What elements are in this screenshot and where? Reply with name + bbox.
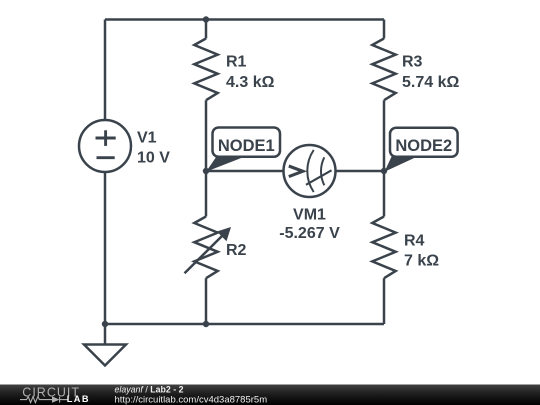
- svg-text:V1: V1: [137, 129, 157, 146]
- svg-text:5.74 kΩ: 5.74 kΩ: [402, 74, 459, 91]
- svg-text:4.3 kΩ: 4.3 kΩ: [226, 74, 275, 91]
- svg-text:http://circuitlab.com/cv4d3a87: http://circuitlab.com/cv4d3a8785r5m: [115, 395, 268, 405]
- svg-text:VM1: VM1: [293, 207, 326, 224]
- svg-text:R2: R2: [226, 242, 247, 259]
- svg-text:R1: R1: [226, 54, 247, 71]
- svg-text:R3: R3: [402, 54, 423, 71]
- svg-text:NODE2: NODE2: [395, 137, 452, 155]
- svg-text:10 V: 10 V: [137, 149, 170, 166]
- svg-text:NODE1: NODE1: [218, 137, 275, 155]
- svg-text:R4: R4: [404, 233, 425, 250]
- svg-text:-5.267 V: -5.267 V: [279, 225, 340, 242]
- svg-text:7 kΩ: 7 kΩ: [404, 253, 439, 270]
- svg-text:LAB: LAB: [67, 394, 90, 404]
- svg-text:elayanf / Lab2 - 2: elayanf / Lab2 - 2: [115, 385, 184, 395]
